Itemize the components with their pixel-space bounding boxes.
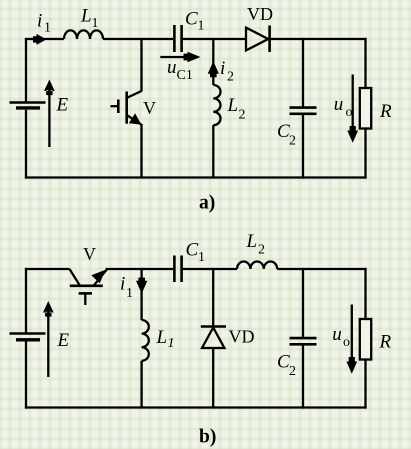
svg-text:R: R [379, 332, 392, 353]
battery E (b) short plate [16, 338, 40, 341]
wire: left vertical a (above battery) [25, 38, 27, 102]
wire: L1 branch upper (b) [140, 268, 142, 320]
resistor R (b) [360, 319, 371, 360]
svg-text:1: 1 [198, 250, 205, 265]
transistor V (b) emitter arrow [91, 270, 105, 283]
capacitor C1 (a) left plate [173, 25, 176, 52]
transistor V (a) collector diagonal [127, 91, 141, 98]
svg-text:E: E [56, 95, 69, 116]
svg-text:o: o [346, 105, 353, 120]
transistor V (b) gate bar [79, 292, 92, 295]
transistor V (b) main bar [70, 284, 103, 287]
svg-text:u: u [334, 94, 344, 115]
wire: top b between V and C1 [106, 268, 174, 270]
svg-text:C1: C1 [177, 68, 193, 83]
wire: C2 branch lower (a) [302, 114, 304, 179]
svg-text:i: i [120, 274, 125, 295]
svg-text:L: L [80, 6, 92, 27]
capacitor C2 (a) top plate [290, 106, 317, 109]
transistor V (a) collector wire [140, 38, 142, 92]
wire: top b between C1 and L2 [183, 268, 238, 270]
wire: top a between VD and right corner [270, 38, 367, 40]
arrow annotation u_o (b) [346, 305, 357, 374]
wire: top-left horizontal segment b [25, 268, 70, 270]
diode VD (a) triangle [246, 28, 268, 51]
wire: left vertical a (below battery) [25, 110, 27, 179]
wire: L1 branch lower (b) [140, 361, 142, 409]
svg-text:u: u [167, 57, 177, 78]
wire: bottom a [25, 176, 367, 178]
arrow annotation i1 (b) [136, 278, 147, 294]
wire: right vertical b (above R) [364, 268, 366, 319]
wire: top a between C1 and VD [183, 38, 247, 40]
svg-text:2: 2 [289, 364, 296, 379]
wire: L2 branch lower (a) [212, 125, 214, 178]
wire: bottom b [25, 406, 367, 408]
inductor L1 (b) [142, 320, 149, 361]
arrow annotation u_C1 (a) [160, 52, 200, 62]
battery E (a) short plate [16, 106, 40, 109]
wire: VD branch lower (b) [212, 348, 214, 409]
capacitor C1 (b) right plate [180, 256, 183, 283]
svg-text:L: L [246, 231, 258, 252]
inductor L1 (a) [64, 30, 103, 39]
svg-text:1: 1 [44, 21, 51, 36]
wire: right vertical b (below R) [364, 360, 366, 409]
capacitor C1 (b) left plate [173, 256, 176, 283]
svg-text:2: 2 [227, 70, 234, 85]
transistor V (a) main bar [125, 92, 128, 124]
arrow annotation i1 (a) [33, 34, 47, 45]
wire: L2 branch upper (a) [212, 38, 214, 85]
svg-text:L: L [156, 327, 168, 348]
battery E (a) long plate [10, 101, 46, 103]
wire: top b between L2 and right corner [277, 268, 366, 270]
svg-text:1: 1 [168, 336, 175, 351]
wire: C2 branch lower (b) [302, 345, 304, 409]
transistor V (a) gate bar [117, 100, 120, 114]
transistor V (b) gate lead [84, 293, 86, 305]
wire: top-left horizontal segment a [25, 38, 64, 40]
wire: top a between L1 and C1 [103, 38, 173, 40]
transistor V (a) emitter diagonal [127, 116, 141, 125]
svg-text:a): a) [199, 193, 215, 214]
svg-text:V: V [143, 98, 156, 118]
diode VD (b) cathode bar [201, 325, 226, 328]
inductor L2 (a) [213, 85, 220, 125]
svg-text:V: V [83, 244, 96, 264]
svg-text:1: 1 [198, 19, 205, 34]
svg-text:L: L [227, 95, 239, 116]
capacitor C1 (a) right plate [180, 25, 183, 52]
svg-text:2: 2 [289, 134, 296, 149]
transistor V (b) emitter diagonal [94, 269, 108, 286]
diode VD (a) cathode bar [268, 26, 271, 53]
svg-text:R: R [379, 101, 392, 122]
transistor V (b) collector diagonal [70, 269, 81, 286]
wire: right vertical a (below R) [364, 129, 366, 179]
battery E (b) long plate [10, 332, 46, 334]
transistor V (a) emitter wire [140, 124, 142, 179]
capacitor C2 (b) bottom plate [290, 343, 317, 346]
svg-text:2: 2 [258, 243, 265, 258]
svg-text:C: C [186, 240, 199, 261]
svg-text:1: 1 [126, 286, 133, 301]
wire: C2 branch upper (b) [302, 268, 304, 338]
svg-text:b): b) [199, 427, 216, 448]
svg-text:u: u [332, 324, 342, 345]
diode VD (b) triangle [202, 328, 224, 349]
svg-text:1: 1 [92, 16, 99, 31]
arrow annotation E (b) [43, 301, 54, 377]
inductor L2 (b) [237, 262, 277, 270]
svg-text:2: 2 [239, 108, 246, 123]
capacitor C2 (a) bottom plate [290, 113, 317, 116]
svg-text:i: i [220, 58, 225, 79]
svg-text:VD: VD [247, 4, 273, 24]
svg-text:o: o [343, 335, 350, 350]
arrow annotation i2 (a) [208, 61, 219, 77]
wire: left vertical b (below battery) [25, 341, 27, 409]
transistor V (a) gate lead [111, 105, 119, 107]
svg-text:VD: VD [229, 327, 255, 347]
arrow annotation E (a) [44, 80, 55, 148]
wire: left vertical b (above battery) [25, 268, 27, 333]
wire: VD branch upper (b) [212, 268, 214, 327]
wire: C2 branch upper (a) [302, 38, 304, 108]
svg-text:i: i [37, 10, 42, 31]
svg-text:C: C [185, 8, 198, 29]
transistor V (a) emitter arrow [129, 113, 141, 124]
capacitor C2 (b) top plate [290, 337, 317, 340]
arrow annotation u_o (a) [347, 75, 358, 143]
resistor R (a) [360, 88, 371, 129]
wire: right vertical a (above R) [364, 38, 366, 88]
svg-text:E: E [57, 330, 70, 351]
